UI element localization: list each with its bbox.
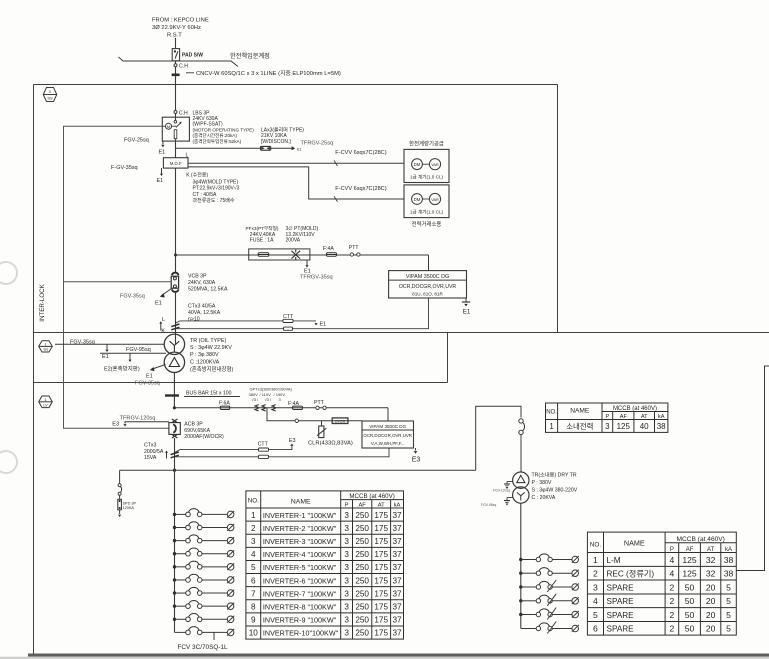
- transformer TR OIL TYPE: [164, 334, 184, 354]
- svg-text:NAME: NAME: [570, 408, 590, 415]
- svg-text:5: 5: [726, 610, 731, 620]
- svg-text:E1: E1: [320, 322, 327, 328]
- breaker aux TR MCCB: [519, 419, 523, 423]
- svg-text:3: 3: [344, 550, 349, 559]
- breaker INVERTER-7 branch: [173, 587, 234, 596]
- svg-text:1급 계기(1.0 CL): 1급 계기(1.0 CL): [410, 208, 444, 215]
- svg-text:PTT: PTT: [349, 245, 360, 251]
- svg-text:M.O.F: M.O.F: [170, 161, 182, 166]
- svg-text:1: 1: [251, 511, 256, 520]
- svg-text:3: 3: [344, 511, 349, 520]
- breaker INVERTER-5 branch: [173, 561, 234, 570]
- wire REC feeder from page edge: [736, 366, 769, 571]
- relay OVGR: [332, 418, 348, 424]
- svg-text:4: 4: [670, 555, 675, 565]
- svg-text:50: 50: [685, 624, 695, 634]
- wire PT to relay: [428, 255, 430, 271]
- svg-text:E1: E1: [159, 150, 166, 156]
- zone tag LV hexagon: [39, 396, 53, 408]
- svg-text:VIPAM 3500C DG: VIPAM 3500C DG: [369, 424, 406, 429]
- svg-text:K (수전용): K (수전용): [186, 172, 208, 179]
- wire TR to busbar: [173, 373, 175, 408]
- svg-text:한전책임분계점: 한전책임분계점: [230, 52, 270, 60]
- svg-text:50: 50: [685, 582, 695, 592]
- svg-text:C :1200KVA: C :1200KVA: [190, 359, 220, 365]
- breaker ACB 3P: [169, 419, 180, 438]
- breaker VCB 3P: [171, 273, 178, 292]
- svg-text:n>10: n>10: [188, 317, 200, 323]
- svg-text:FGV-35sq: FGV-35sq: [120, 294, 145, 300]
- svg-text:BUS BAR 15t x 100: BUS BAR 15t x 100: [186, 391, 232, 397]
- meter panel KPX: [404, 185, 449, 218]
- transformer CT LV: [171, 452, 179, 458]
- binder hole top: [0, 262, 17, 284]
- svg-text:AF: AF: [620, 414, 628, 420]
- svg-text:(혼촉방지판내장형): (혼촉방지판내장형): [190, 365, 233, 373]
- svg-text:15VA: 15VA: [144, 455, 157, 461]
- wire LV sub bus: [173, 469, 176, 472]
- svg-text:3: 3: [344, 603, 349, 612]
- wire aux panel bus: [520, 503, 522, 628]
- table inverter MCCB list: [246, 491, 404, 639]
- wire CTT2 HV to relay: [176, 298, 429, 329]
- wire LV metering branch: [173, 406, 176, 409]
- breaker INVERTER-4 branch: [173, 548, 234, 557]
- svg-text:과전류강도 : 75배수: 과전류강도 : 75배수: [193, 197, 235, 204]
- arrester LAx3: [261, 146, 271, 150]
- relay VIPAM 3500C DG HV: [389, 271, 467, 298]
- wire to relay LV: [387, 408, 389, 421]
- svg-text:TFRGV-35sq: TFRGV-35sq: [300, 275, 333, 281]
- svg-text:E1: E1: [102, 354, 109, 360]
- svg-text:3: 3: [605, 422, 610, 431]
- ground lead FGV-35sq E1 TR secondary: [152, 365, 166, 370]
- svg-text:INTER-LOCK: INTER-LOCK: [39, 283, 46, 321]
- svg-text:F-GV-35sq: F-GV-35sq: [111, 165, 138, 171]
- svg-text:1: 1: [44, 398, 46, 402]
- svg-text:5: 5: [726, 582, 731, 592]
- svg-text:250: 250: [355, 537, 369, 546]
- svg-text:250: 250: [355, 629, 369, 638]
- svg-text:AT: AT: [707, 547, 715, 553]
- wire incoming feeder: [175, 38, 177, 49]
- svg-text:INVERTER-7 "100KW": INVERTER-7 "100KW": [263, 589, 337, 598]
- meter DM 1: [412, 159, 423, 170]
- svg-text:250: 250: [355, 524, 369, 533]
- svg-text:690V,65KA: 690V,65KA: [184, 428, 210, 434]
- svg-text:250: 250: [355, 576, 369, 585]
- svg-text:E3: E3: [112, 422, 119, 428]
- svg-text:FROM : KEPCO LINE: FROM : KEPCO LINE: [152, 18, 209, 24]
- svg-text:OCR,DOCGR,OVR,UVR: OCR,DOCGR,OVR,UVR: [399, 284, 457, 290]
- wire ACB to CT: [174, 438, 176, 470]
- svg-text:INVERTER-9 "100KW": INVERTER-9 "100KW": [263, 616, 337, 625]
- svg-text:125: 125: [617, 422, 631, 431]
- svg-text:SPARE: SPARE: [607, 597, 635, 606]
- binder hole bottom: [0, 451, 17, 473]
- svg-text:3: 3: [344, 589, 349, 598]
- table house power MCCB: [546, 403, 668, 432]
- svg-text:37: 37: [392, 629, 402, 638]
- svg-text:250: 250: [355, 550, 369, 559]
- svg-text:REC (정류기): REC (정류기): [607, 569, 655, 579]
- svg-text:5: 5: [726, 596, 731, 606]
- svg-text:AT: AT: [378, 503, 385, 509]
- svg-text:FGV-35sq: FGV-35sq: [135, 381, 160, 387]
- switch PAD S/W: [172, 49, 179, 61]
- svg-text:소내전력: 소내전력: [566, 422, 593, 431]
- svg-text:1: 1: [549, 422, 554, 431]
- svg-text:E1: E1: [157, 178, 164, 184]
- svg-text:NO.: NO.: [248, 498, 259, 505]
- wire aux TR riser: [476, 406, 521, 470]
- svg-text:1: 1: [593, 555, 598, 565]
- breaker branch 3 aux panel: [519, 580, 579, 592]
- breaker branch 5 aux panel: [519, 608, 579, 620]
- svg-text:175: 175: [374, 603, 388, 612]
- svg-text:F-CVV 6sqx7C(28C): F-CVV 6sqx7C(28C): [335, 186, 386, 192]
- breaker branch 1 aux panel: [519, 554, 579, 563]
- svg-text:175: 175: [374, 563, 388, 572]
- meter VAR 1: [422, 163, 429, 165]
- svg-text:TFRGV-120sq: TFRGV-120sq: [120, 416, 156, 422]
- wire breaker to aux TR: [520, 435, 522, 472]
- svg-text:6: 6: [251, 576, 256, 585]
- wire CTT2 LV to relay: [175, 448, 390, 457]
- breaker INVERTER-8 branch: [173, 600, 234, 609]
- svg-text:20: 20: [706, 610, 716, 620]
- svg-text:2: 2: [593, 569, 598, 579]
- svg-text:3: 3: [251, 537, 256, 546]
- svg-text:6: 6: [593, 624, 598, 634]
- svg-text:SS: SS: [47, 96, 53, 101]
- wire inverter bus: [174, 470, 176, 632]
- wire CTT1 LV: [175, 446, 292, 453]
- svg-text:175: 175: [374, 576, 388, 585]
- svg-text:C.H: C.H: [179, 111, 188, 117]
- svg-text:CTx3 40/5A: CTx3 40/5A: [188, 304, 216, 310]
- breaker INVERTER-10 branch: [175, 627, 235, 636]
- ground E3 relay LV: [415, 448, 417, 451]
- cable label FCV: [213, 632, 215, 640]
- svg-text:C.H: C.H: [179, 64, 188, 70]
- wire LBS to MOF: [175, 141, 177, 157]
- svg-text:(MOTOR OPERATING TYPE): (MOTOR OPERATING TYPE): [193, 127, 255, 132]
- cable marker CNCV-W: [172, 74, 180, 77]
- wire meter circuit 1: [188, 162, 404, 164]
- breaker INVERTER-1 branch: [173, 509, 234, 518]
- svg-text:4: 4: [251, 550, 256, 559]
- wire GPT neutral to OVGR: [267, 408, 362, 421]
- ground lead TFRGV-35sq E1: [306, 260, 308, 265]
- svg-text:SPD 3P: SPD 3P: [123, 502, 137, 506]
- svg-text:CLR(433Ω,83VA): CLR(433Ω,83VA): [308, 441, 353, 447]
- breaker branch 4 aux panel: [519, 594, 579, 606]
- svg-text:INVERTER-2 "100KW": INVERTER-2 "100KW": [263, 524, 337, 533]
- svg-text:5: 5: [593, 610, 598, 620]
- svg-text:175: 175: [374, 524, 388, 533]
- svg-text:SPARE: SPARE: [607, 625, 635, 634]
- svg-text:√3 /: √3 /: [252, 397, 260, 402]
- wire MOF to VCB: [175, 168, 177, 272]
- svg-text:PT:22.9kV√3/190V√3: PT:22.9kV√3/190V√3: [193, 185, 240, 192]
- svg-text:175: 175: [374, 550, 388, 559]
- wire CTT1 HV: [176, 321, 317, 323]
- svg-text:P : 380V: P : 380V: [532, 480, 552, 486]
- svg-text:3Ø 22.9KV-Y 60Hz: 3Ø 22.9KV-Y 60Hz: [152, 25, 201, 31]
- svg-text:4: 4: [593, 596, 598, 606]
- svg-text:FGV-95sq: FGV-95sq: [481, 503, 496, 507]
- svg-text:175: 175: [374, 629, 388, 638]
- relay VIPAM 3500C DG LV: [362, 421, 414, 448]
- svg-text:AF: AF: [686, 547, 694, 553]
- svg-text:37: 37: [392, 537, 402, 546]
- node C.H 2: [174, 111, 177, 114]
- svg-text:E2(혼촉방지판): E2(혼촉방지판): [104, 365, 140, 373]
- svg-text:3: 3: [344, 629, 349, 638]
- svg-text:3φ4W(MOLD TYPE): 3φ4W(MOLD TYPE): [193, 180, 239, 186]
- breaker INVERTER-3 branch: [173, 535, 234, 544]
- svg-text:175: 175: [374, 589, 388, 598]
- svg-text:P: P: [345, 503, 349, 509]
- svg-text:VAR: VAR: [431, 198, 439, 202]
- svg-text:1급 계기(1.0 CL): 1급 계기(1.0 CL): [410, 174, 444, 181]
- ground aux TR 2: [507, 497, 513, 499]
- svg-text:OCR,DOCGR,OVR,UVR: OCR,DOCGR,OVR,UVR: [363, 433, 412, 438]
- svg-text:kA: kA: [658, 414, 665, 420]
- svg-text:81U, 81O, 81R: 81U, 81O, 81R: [412, 291, 443, 296]
- wire PT branch: [174, 254, 177, 257]
- svg-text:K: K: [161, 329, 165, 335]
- zone tag TR hexagon: [39, 341, 53, 352]
- breaker branch 6 aux panel: [521, 622, 579, 634]
- breaker INVERTER-2 branch: [173, 522, 234, 531]
- svg-text:3: 3: [344, 524, 349, 533]
- scan shadow bottom strip: [28, 654, 769, 657]
- svg-text:한전계량기공급: 한전계량기공급: [409, 140, 444, 148]
- svg-text:P: P: [605, 414, 609, 420]
- svg-text:VIPAM 3500C DG: VIPAM 3500C DG: [406, 274, 449, 280]
- svg-text:2: 2: [670, 596, 675, 606]
- switch LBS 3P: [175, 114, 177, 121]
- svg-text:20: 20: [706, 596, 716, 606]
- wire meter circuit 2: [188, 167, 404, 199]
- svg-text:175: 175: [374, 616, 388, 625]
- svg-text:E3: E3: [412, 457, 421, 464]
- svg-text:250: 250: [355, 616, 369, 625]
- svg-text:VAR: VAR: [431, 163, 439, 167]
- svg-text:2000/5A: 2000/5A: [144, 449, 164, 455]
- transformer GPT windings: [255, 405, 276, 411]
- svg-text:2: 2: [670, 624, 675, 634]
- svg-text:37: 37: [392, 589, 402, 598]
- svg-text:TR: TR: [43, 348, 48, 352]
- transformer PT symbol: [292, 250, 301, 260]
- svg-text:SPARE: SPARE: [607, 611, 635, 620]
- meter VAR 2: [422, 198, 429, 200]
- svg-text:TR (OIL TYPE): TR (OIL TYPE): [190, 338, 226, 344]
- svg-text:1: 1: [44, 342, 46, 346]
- resistor CLR: [321, 421, 323, 426]
- svg-text:C : 20KVA: C : 20KVA: [532, 495, 556, 501]
- table aux panel MCCB list: [587, 532, 736, 635]
- wire VCB to CT: [175, 292, 177, 345]
- svg-text:FGV-95sq: FGV-95sq: [126, 347, 151, 353]
- svg-text:37: 37: [392, 576, 402, 585]
- svg-text:DM: DM: [414, 162, 421, 167]
- svg-text:2: 2: [670, 610, 675, 620]
- svg-text:L-M: L-M: [607, 556, 621, 565]
- svg-text:NO.: NO.: [590, 542, 602, 549]
- ground E1 relay HV: [465, 298, 467, 302]
- svg-text:520MVA, 12.5KA: 520MVA, 12.5KA: [188, 287, 228, 293]
- svg-text:F-CVV 6sqx7C(28C): F-CVV 6sqx7C(28C): [335, 150, 386, 156]
- svg-text:E1: E1: [146, 374, 153, 380]
- svg-text:L: L: [162, 317, 165, 323]
- svg-text:200VA: 200VA: [286, 238, 301, 244]
- svg-text:7: 7: [251, 589, 256, 598]
- svg-text:R.S.T: R.S.T: [167, 33, 182, 39]
- breaker branch 2 aux panel: [519, 568, 579, 577]
- svg-text:FGV-25sq: FGV-25sq: [124, 138, 149, 144]
- svg-text:250: 250: [355, 563, 369, 572]
- svg-text:F:4A: F:4A: [323, 246, 334, 252]
- breaker INVERTER-9 branch: [173, 614, 234, 623]
- svg-text:2000AF(W/OCR): 2000AF(W/OCR): [184, 434, 224, 440]
- svg-text:TFRGV-25sq: TFRGV-25sq: [301, 141, 334, 147]
- svg-text:INVERTER-5 "100KW": INVERTER-5 "100KW": [263, 563, 337, 572]
- svg-text:120KA: 120KA: [123, 506, 135, 510]
- svg-text:37: 37: [392, 616, 402, 625]
- svg-text:50: 50: [685, 596, 695, 606]
- svg-text:175: 175: [374, 537, 388, 546]
- zone tag SS hexagon: [43, 88, 57, 102]
- svg-text:INVERTER-4 "100KW": INVERTER-4 "100KW": [263, 550, 337, 559]
- svg-text:AF: AF: [358, 503, 366, 509]
- svg-text:V,A,W,WH,PF,F...: V,A,W,WH,PF,F...: [371, 441, 405, 446]
- svg-text:INVERTER-1 "100KW": INVERTER-1 "100KW": [263, 511, 337, 520]
- svg-text:32: 32: [706, 569, 716, 579]
- svg-text:5: 5: [251, 563, 256, 572]
- svg-text:CTx3: CTx3: [144, 443, 157, 449]
- svg-text:INVERTER-3 "100KW": INVERTER-3 "100KW": [263, 537, 337, 546]
- svg-text:9: 9: [251, 616, 256, 625]
- svg-text:40: 40: [640, 422, 649, 431]
- svg-text:SPARE: SPARE: [607, 583, 635, 592]
- svg-text:37: 37: [392, 524, 402, 533]
- svg-text:GPTx3(380/380/190VA): GPTx3(380/380/190VA): [250, 387, 293, 392]
- pt assembly box: [249, 249, 310, 260]
- fuse PFx3: [258, 253, 269, 257]
- svg-text:M: M: [167, 124, 170, 129]
- svg-text:37: 37: [392, 511, 402, 520]
- svg-text:20: 20: [706, 624, 716, 634]
- svg-text:TR(소내용) DRY TR: TR(소내용) DRY TR: [532, 471, 577, 479]
- svg-text:E3: E3: [289, 438, 296, 444]
- svg-text:250: 250: [355, 603, 369, 612]
- svg-text:AT: AT: [641, 414, 648, 420]
- svg-text:37: 37: [392, 563, 402, 572]
- svg-text:ACB 3P: ACB 3P: [184, 422, 203, 428]
- svg-text:FGV-120sq: FGV-120sq: [493, 489, 510, 493]
- KEPCO demarcation line: [119, 57, 239, 67]
- wire LA branch: [176, 147, 293, 149]
- svg-text:CT : 40/5A: CT : 40/5A: [193, 192, 217, 198]
- svg-text:P : 3φ 380V: P : 3φ 380V: [190, 352, 219, 358]
- svg-text:38: 38: [657, 422, 666, 431]
- svg-text:38: 38: [724, 569, 734, 579]
- svg-text:2: 2: [670, 582, 675, 592]
- svg-text:LV: LV: [43, 404, 48, 408]
- svg-text:INVERTER-6 "100KW": INVERTER-6 "100KW": [263, 576, 337, 585]
- svg-text:2: 2: [251, 524, 256, 533]
- transformer aux DRY TR: [513, 472, 529, 488]
- svg-text:20: 20: [706, 582, 716, 592]
- svg-text:kA: kA: [394, 503, 401, 509]
- svg-text:kA: kA: [725, 547, 732, 553]
- svg-text:125: 125: [682, 569, 697, 579]
- meter DM 2: [412, 194, 423, 205]
- svg-text:8: 8: [251, 603, 256, 612]
- svg-text:37: 37: [392, 603, 402, 612]
- svg-text:FUSE : 1A: FUSE : 1A: [250, 238, 274, 244]
- svg-text:OVGR: OVGR: [335, 420, 346, 424]
- svg-text:CTT: CTT: [258, 441, 269, 447]
- svg-text:DM: DM: [414, 197, 421, 202]
- svg-text:INVERTER-8 "100KW": INVERTER-8 "100KW": [263, 603, 337, 612]
- svg-text:INVERTER-10"100KW": INVERTER-10"100KW": [263, 629, 339, 638]
- svg-text:(충격단락투입전류:52kA): (충격단락투입전류:52kA): [193, 138, 242, 145]
- svg-text:전력거래소용: 전력거래소용: [412, 220, 442, 228]
- svg-text:S : 3φ4W 22.9KV: S : 3φ4W 22.9KV: [190, 345, 232, 351]
- svg-text:4: 4: [670, 569, 675, 579]
- svg-text:32: 32: [706, 555, 716, 565]
- svg-text:250: 250: [355, 511, 369, 520]
- svg-text:MCCB (at 460V): MCCB (at 460V): [677, 536, 725, 543]
- breaker INVERTER-6 branch: [173, 574, 234, 583]
- svg-text:MCCB (at 460V): MCCB (at 460V): [613, 406, 657, 412]
- svg-text:3: 3: [344, 537, 349, 546]
- svg-text:E1: E1: [155, 301, 162, 307]
- svg-text:24KV, 630A: 24KV, 630A: [188, 280, 216, 286]
- interlock line: [64, 126, 169, 428]
- svg-text:250: 250: [355, 589, 369, 598]
- svg-text:175: 175: [374, 511, 388, 520]
- svg-text:NAME: NAME: [624, 539, 645, 548]
- svg-text:MCCB (at 460V): MCCB (at 460V): [349, 493, 394, 500]
- svg-text:50: 50: [685, 610, 695, 620]
- svg-text:5: 5: [726, 624, 731, 634]
- svg-text:VCB 3P: VCB 3P: [188, 274, 207, 280]
- arrester SPD branch: [119, 470, 121, 484]
- svg-text:3: 3: [344, 576, 349, 585]
- svg-text:√3 /: √3 /: [265, 397, 273, 402]
- svg-text:38: 38: [724, 555, 734, 565]
- svg-text:PAD S/W: PAD S/W: [182, 53, 203, 59]
- node C.H 1: [175, 61, 177, 74]
- svg-text:3: 3: [344, 616, 349, 625]
- svg-text:P: P: [670, 547, 674, 553]
- svg-text:125: 125: [682, 555, 697, 565]
- svg-text:FCV 3C/70SQ-1L: FCV 3C/70SQ-1L: [178, 644, 229, 651]
- svg-text:3: 3: [593, 582, 598, 592]
- svg-text:40VA, 12.5KA: 40VA, 12.5KA: [188, 310, 221, 316]
- ground aux TR 1: [507, 481, 513, 483]
- svg-text:CNCV-W 60SQ/1C x 3 x 1LINE (지중: CNCV-W 60SQ/1C x 3 x 1LINE (지중 ELP100mm …: [196, 69, 341, 77]
- svg-text:E1: E1: [297, 147, 301, 151]
- svg-text:3: 3: [344, 563, 349, 572]
- svg-text:[W/DISCON.]: [W/DISCON.]: [261, 139, 291, 145]
